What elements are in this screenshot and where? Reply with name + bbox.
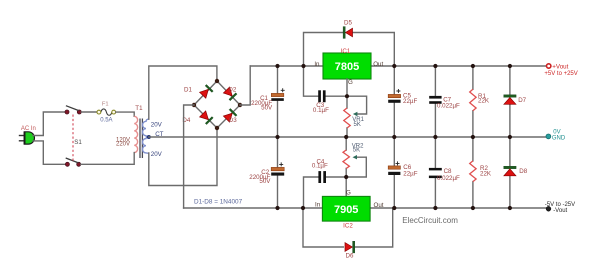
svg-text:22K: 22K (480, 171, 492, 178)
wire plug top to riser (33, 112, 65, 136)
svg-text:D1: D1 (184, 87, 192, 94)
potentiometer VR2 (343, 150, 349, 169)
resistor R1 (470, 89, 476, 110)
node dot positive rail D7 (508, 64, 512, 68)
svg-text:In: In (314, 61, 320, 68)
wire switch to fuse (81, 111, 97, 113)
node dot ground rail C5 (392, 135, 396, 139)
svg-text:IC1: IC1 (341, 48, 351, 55)
svg-text:50V: 50V (259, 178, 271, 185)
wire D5 right branch (353, 33, 395, 67)
diode D8 stems (509, 137, 511, 208)
capacitor C8 stems (434, 137, 436, 208)
svg-text:0.1µF: 0.1µF (312, 163, 328, 170)
capacitor C1 stems (277, 66, 279, 137)
capacitor C1 plates (271, 93, 284, 96)
node dot negative rail R2 (471, 206, 475, 210)
node dot ground rail D7 (508, 135, 512, 139)
svg-text:22K: 22K (478, 98, 490, 105)
VR2 wiper arrow (353, 155, 358, 159)
svg-text:5K: 5K (354, 122, 361, 128)
wire D6 left branch (303, 208, 343, 247)
resistor R2 stems (472, 137, 474, 208)
capacitor C5 polarity (396, 89, 400, 93)
negative rail right segment (370, 207, 546, 209)
capacitor C3 plates (318, 90, 321, 102)
wire D5 left branch (304, 33, 344, 67)
svg-text:T1: T1 (135, 105, 143, 112)
diode D5 (343, 27, 352, 39)
wire C4 branch (304, 177, 347, 208)
svg-text:50V: 50V (261, 105, 273, 112)
svg-text:D7: D7 (518, 97, 526, 104)
capacitor C7 plates (429, 96, 441, 99)
wire G line IC2 (345, 137, 347, 196)
wire fuse to transformer primary (116, 112, 135, 116)
node dot negative rail C2 (275, 206, 279, 210)
svg-text:D3: D3 (229, 117, 237, 124)
diode D8 (504, 166, 516, 176)
svg-text:S1: S1 (74, 139, 82, 146)
terminal +Vout (547, 64, 551, 68)
diode D3 (223, 108, 237, 122)
wire secondary top to bridge top (149, 66, 217, 119)
diode D4 (199, 111, 213, 125)
transformer T1 core (140, 119, 142, 159)
wire plug bottom to riser (33, 141, 66, 164)
wire primary bottom to switch (81, 153, 134, 165)
node bridge right (238, 103, 242, 107)
svg-text:G: G (348, 79, 353, 86)
IC2 7905 regulator (322, 196, 370, 221)
svg-text:AC In: AC In (21, 126, 36, 132)
svg-text:0.1µF: 0.1µF (313, 107, 329, 114)
AC plug (19, 132, 35, 144)
svg-text:7905: 7905 (334, 204, 358, 216)
ground rail CT to GND terminal (149, 136, 547, 138)
capacitor C6 stems (393, 137, 395, 208)
capacitor C2 stems (277, 137, 279, 208)
svg-text:5K: 5K (353, 148, 360, 154)
diode D7 (504, 95, 516, 105)
svg-text:0.022µF: 0.022µF (437, 175, 460, 182)
diode D1 (199, 85, 213, 99)
svg-text:+5V to +25V: +5V to +25V (544, 71, 577, 77)
switch S1 gang dashed link (72, 115, 74, 163)
negative rail left segment (184, 207, 323, 209)
node dot negative rail D6 (301, 206, 305, 210)
capacitor C7 stems (434, 66, 436, 137)
svg-text:-Vout: -Vout (553, 208, 567, 214)
svg-text:0.5A: 0.5A (100, 117, 112, 123)
diode D6 (345, 241, 355, 253)
capacitor C1 polarity (281, 88, 285, 92)
node dot negative rail C6 (392, 206, 396, 210)
node bridge left (192, 103, 196, 107)
svg-text:In: In (315, 201, 321, 208)
svg-text:D2: D2 (228, 87, 236, 94)
wire secondary bottom to bridge bottom (149, 128, 217, 186)
resistor R1 stems (472, 66, 474, 137)
capacitor C5 stems (393, 66, 395, 137)
node bridge top (215, 79, 219, 83)
node dot positive rail R1 (471, 64, 475, 68)
IC1 7805 regulator (323, 53, 371, 79)
diode D2 (223, 87, 237, 101)
node dot G1 junction (345, 94, 349, 98)
capacitor C2 plates (271, 167, 284, 170)
svg-text:Out: Out (374, 202, 384, 209)
svg-text:D8: D8 (519, 168, 527, 175)
positive rail left segment (250, 65, 323, 67)
svg-text:G: G (346, 189, 351, 196)
switch S1 pole A lever (66, 106, 79, 111)
capacitor C8 plates (429, 168, 442, 171)
capacitor C4 plates (318, 171, 321, 183)
transformer T1 secondary winding (143, 119, 149, 153)
svg-text:F1: F1 (102, 101, 109, 107)
svg-text:D1-D8 = 1N4007: D1-D8 = 1N4007 (194, 198, 243, 205)
node dot negative rail C8 (433, 206, 437, 210)
node dot ground rail C7 (433, 135, 437, 139)
svg-text:220V: 220V (116, 142, 130, 148)
svg-text:D6: D6 (346, 253, 354, 260)
switch S1 pole B lever (66, 158, 79, 163)
svg-text:22µF: 22µF (403, 170, 417, 177)
resistor R2 (470, 161, 476, 182)
node bridge bottom (215, 126, 219, 130)
VR1 wiper loop (347, 96, 367, 114)
switch S1 pole A contacts (65, 110, 69, 114)
node dot positive rail C1 (275, 64, 279, 68)
capacitor C5 plates (388, 94, 400, 97)
capacitor C6 polarity (396, 161, 400, 165)
VR2 wiper loop (346, 157, 366, 177)
switch S1 pole B contacts (65, 162, 69, 166)
svg-text:ElecCircuit.com: ElecCircuit.com (402, 216, 458, 225)
wire bridge left to negative rail (184, 105, 194, 208)
VR1 wiper arrow (353, 112, 358, 116)
node CT dot (147, 135, 151, 139)
wire G line IC1 (346, 79, 348, 137)
capacitor C2 polarity (279, 162, 283, 166)
wire bridge right to positive rail (240, 66, 250, 105)
svg-text:0.022µF: 0.022µF (437, 103, 460, 110)
node dot positive rail In (301, 64, 305, 68)
svg-text:Out: Out (373, 61, 383, 68)
node dot ground rail R1 (471, 135, 475, 139)
svg-text:D5: D5 (344, 20, 352, 27)
node dot negative rail D8 (508, 206, 512, 210)
bridge wires (194, 81, 240, 128)
node dot positive rail C5 (392, 64, 396, 68)
svg-text:20V: 20V (151, 121, 163, 128)
svg-text:0V: 0V (553, 130, 560, 136)
svg-text:IC2: IC2 (343, 222, 353, 229)
fuse F1 (97, 109, 116, 115)
diode D7 stems (509, 66, 511, 137)
wire C3 branch (304, 66, 348, 96)
node dot G2 junction (344, 175, 348, 179)
capacitor C6 plates (388, 166, 400, 169)
node dot ground rail G (344, 135, 348, 139)
svg-text:+Vout: +Vout (552, 64, 568, 71)
svg-text:GND: GND (552, 136, 566, 142)
node dot ground rail C1 (275, 135, 279, 139)
node dot positive rail C7 (433, 64, 437, 68)
svg-text:7805: 7805 (335, 61, 359, 73)
transformer T1 primary winding (134, 116, 137, 152)
svg-text:20V: 20V (151, 151, 163, 158)
svg-text:22µF: 22µF (403, 98, 417, 105)
terminal -Vout (546, 206, 551, 211)
terminal GND (546, 134, 551, 139)
wire D6 right branch (355, 208, 393, 247)
potentiometer VR1 (344, 108, 350, 128)
positive rail right segment (371, 65, 546, 67)
